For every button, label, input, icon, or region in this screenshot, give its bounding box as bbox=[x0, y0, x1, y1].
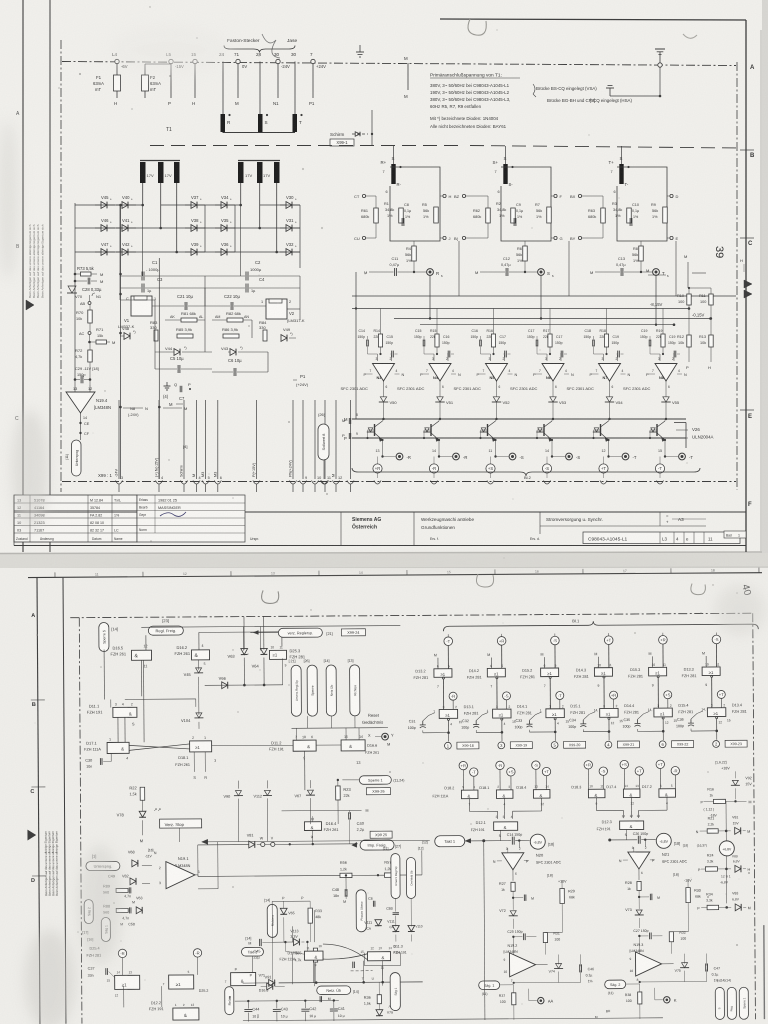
connector pin 5 M3 bbox=[201, 400, 210, 492]
phase block T bbox=[570, 146, 679, 296]
gate D18.1 (&) bbox=[479, 785, 513, 812]
secondary1 lead 2 bbox=[160, 183, 162, 228]
comparator ch6 input network bbox=[640, 309, 680, 362]
gate D16.4 bbox=[282, 809, 369, 845]
phase block R bbox=[354, 146, 459, 296]
left lower wires bbox=[142, 842, 218, 890]
gate D14.2 (row1) bbox=[467, 664, 506, 710]
resistor R37 bbox=[499, 985, 516, 1020]
output T drop bbox=[655, 276, 657, 326]
D12.3 input wires bbox=[597, 810, 668, 818]
output terminals ch2 bbox=[429, 446, 467, 484]
pair circles +S/+T bbox=[620, 760, 644, 789]
gate D12.2 bbox=[149, 1001, 199, 1020]
cap C26 150p bbox=[608, 832, 656, 847]
oval Drehfeld Ueb bbox=[406, 846, 424, 898]
connector pin 4 M bbox=[192, 400, 201, 492]
ruler tick 6 bbox=[583, 569, 627, 574]
page1 margin letter E bbox=[748, 414, 752, 420]
oval Säg. 2 bbox=[605, 980, 640, 995]
ruler tick 1 bbox=[143, 571, 187, 576]
D11.3 labels bbox=[393, 945, 406, 955]
capacitor C1 bbox=[121, 260, 206, 281]
gate D17.2 (&) bbox=[642, 784, 676, 811]
oval Sag1 bbox=[101, 917, 110, 941]
T1 primary winding S bbox=[258, 114, 268, 132]
driver transistor ch3 bbox=[479, 419, 496, 446]
feedback wire N20 bbox=[509, 932, 580, 984]
gate D13.3 (row1) bbox=[682, 662, 721, 708]
page2 frame dash-dot right bbox=[753, 613, 756, 1019]
oval Unterspng2 bbox=[86, 861, 120, 870]
resistor R85 bbox=[176, 327, 193, 338]
R33 resistor bbox=[308, 901, 322, 942]
center bottom verticals bbox=[270, 910, 315, 986]
driver transistor ch5 bbox=[592, 419, 609, 446]
aux earth [2] bbox=[590, 67, 661, 103]
R35 resistor bbox=[294, 948, 317, 983]
T1 secondary winding group2 bbox=[238, 161, 280, 184]
T1 primary feed 30 bbox=[291, 52, 297, 114]
N8 wire label bbox=[123, 406, 187, 417]
gate D25.4 bbox=[107, 958, 140, 998]
capacitor C43 bbox=[273, 1000, 288, 1022]
BL1 col6 input circle -S bbox=[712, 632, 721, 667]
capacitor C21 bbox=[152, 294, 205, 310]
bottom right oval 1 bbox=[715, 987, 724, 1019]
BL1 col3 input circle -S bbox=[551, 633, 560, 668]
gate D13.2 (row1) bbox=[413, 664, 452, 710]
capacitor C44 bbox=[244, 1000, 259, 1022]
diode V46 bbox=[95, 218, 115, 231]
diode V31 bbox=[280, 218, 300, 231]
page1 left margin line A bbox=[22, 0, 24, 552]
BL1 col4 M input bbox=[594, 652, 598, 668]
BL1 col6 mid circle +T bbox=[717, 690, 725, 707]
C45 cap bbox=[248, 939, 272, 960]
Primaeranschlussspannung note block bbox=[430, 73, 632, 130]
capacitor C41 bbox=[330, 999, 345, 1021]
labels D25.4 bbox=[86, 947, 101, 958]
op-amp N19.4 bbox=[66, 380, 111, 413]
diodes V63 V64 bbox=[227, 616, 267, 685]
left wire top bbox=[75, 203, 100, 380]
page1 left margin letter A bbox=[16, 111, 20, 117]
verz Regler oval top bbox=[250, 628, 365, 638]
oval Sperre 5 bbox=[99, 622, 118, 651]
gedaechtnis wires bbox=[307, 702, 309, 738]
M tap N21 bbox=[638, 894, 660, 901]
comparator N20 bbox=[493, 846, 562, 880]
V26 connect wires bbox=[676, 430, 746, 438]
zener V104 bbox=[181, 685, 204, 729]
zener V75 bbox=[675, 954, 690, 982]
resistor R24 bbox=[698, 853, 751, 872]
P1 +24V label bbox=[293, 374, 309, 387]
gate D13.4 (row2) bbox=[701, 703, 747, 740]
lower distribution verticals bbox=[256, 380, 293, 400]
resistor R82 bbox=[212, 311, 252, 322]
connector pin 11 11 bbox=[322, 400, 331, 492]
diode V73 bbox=[625, 908, 644, 928]
gate D14.3 (row1) bbox=[574, 663, 613, 709]
BL1 col1 input circle -T bbox=[444, 634, 453, 669]
page1 left margin letter B bbox=[16, 244, 20, 250]
sag verticals bbox=[88, 924, 105, 956]
label 1 12 bbox=[703, 801, 726, 831]
page1 left margin line B bbox=[49, 0, 51, 552]
page2 sheet number 40 rotated bbox=[739, 583, 753, 597]
comparator left feeds bbox=[355, 272, 357, 419]
gate D15.3 (row1) bbox=[628, 663, 667, 709]
secondary1 lead 1 bbox=[142, 183, 144, 205]
page2 left rail lines bbox=[88, 638, 146, 640]
page1 margin letter C bbox=[748, 241, 753, 247]
rail terminal 30 bbox=[274, 52, 290, 69]
T1 secondary winding group1 bbox=[140, 161, 180, 184]
page2 bus top horizontal bbox=[141, 626, 400, 628]
page2 left margin line A bbox=[37, 578, 40, 1024]
pair circles +R/-S bbox=[584, 760, 608, 789]
resistor R13 bbox=[699, 319, 713, 371]
cap C50 bbox=[120, 916, 135, 926]
resistor R29 bbox=[547, 873, 575, 932]
ff D17.1 bbox=[84, 737, 129, 760]
M H drops right bbox=[646, 254, 744, 273]
driver transistor ch1 bbox=[366, 419, 383, 446]
R88 resistor bbox=[103, 904, 142, 914]
gap between sheets bbox=[0, 553, 768, 569]
BL1 col4 mid circle +R bbox=[610, 691, 618, 708]
V1 block frame lines bbox=[142, 276, 269, 372]
diode V38 bbox=[185, 218, 205, 231]
ruler tick 3 bbox=[319, 570, 363, 575]
op-amp N6 (SFC 2301 ADC) bbox=[510, 357, 574, 397]
node CE bbox=[79, 422, 89, 426]
BL1 col2 input circle +R bbox=[497, 634, 506, 669]
ruler tick 0 bbox=[55, 572, 99, 577]
bottom BH labels bbox=[595, 1009, 611, 1019]
gate D12.3 bbox=[597, 820, 644, 840]
BL1 col5 M input bbox=[649, 652, 653, 668]
oval Säg. 1 bbox=[479, 981, 514, 996]
page 1 right paper edge bbox=[762, 0, 768, 553]
X99-1 box top bbox=[330, 139, 354, 146]
circle +6.8V a bbox=[719, 831, 738, 869]
v90 v112 v67 wires bbox=[238, 780, 338, 842]
diode V37 bbox=[185, 195, 205, 208]
page2 margin letter A bbox=[31, 613, 35, 619]
X99-25 box bbox=[370, 831, 392, 838]
M stub far left of text bbox=[404, 56, 408, 99]
gate D16.3 bbox=[225, 972, 269, 992]
M tap N20 bbox=[512, 894, 534, 901]
driver transistor ch6 bbox=[649, 419, 666, 446]
resistor R32 bbox=[669, 931, 686, 954]
resistor R21 bbox=[696, 815, 751, 834]
page1 margin tick 2 bbox=[740, 237, 754, 239]
page1 margin tick 1 bbox=[740, 149, 754, 151]
label T1 bbox=[166, 127, 172, 133]
T1 primary bottom link bbox=[223, 132, 296, 134]
capacitor C5 bbox=[155, 356, 212, 373]
rail -0.15V bbox=[394, 313, 712, 320]
connector pin 9 9 bbox=[300, 400, 308, 492]
ruler tick 7 bbox=[671, 568, 715, 573]
terminal AC bbox=[79, 332, 91, 337]
bottom right labels bbox=[717, 978, 731, 982]
bottom long horizontals bbox=[119, 399, 160, 401]
zener V54 bbox=[605, 397, 624, 420]
verz stop wires bbox=[143, 811, 180, 842]
oval Richten2 bbox=[264, 896, 304, 937]
BL1 col3 output circled 5 bbox=[551, 741, 585, 748]
gate D25.3 bbox=[269, 645, 305, 667]
H M short rail bbox=[648, 273, 706, 275]
label Faston-Stecker bbox=[227, 34, 297, 58]
BL1 col5 mid circle +S bbox=[664, 691, 672, 708]
ff pair right bbox=[323, 944, 401, 984]
gates mid row wires bbox=[129, 745, 341, 747]
page 1 paper (top scanned sheet) bbox=[0, 0, 768, 553]
Faston brace bbox=[224, 46, 295, 53]
rail stub N1 bbox=[273, 64, 279, 106]
zener V52 bbox=[492, 397, 511, 420]
diode V72 bbox=[499, 909, 518, 929]
imp freig oval bbox=[352, 840, 401, 850]
output terminals ch4 bbox=[542, 446, 580, 484]
output dot K bbox=[655, 988, 677, 1003]
page2 margin tick 1 bbox=[31, 700, 46, 876]
pair circles +T/-R bbox=[656, 760, 680, 789]
page2 margin letter C bbox=[30, 789, 34, 795]
BL1 col4 input circle +T bbox=[604, 633, 613, 668]
matrix to cap verticals bbox=[120, 205, 241, 300]
resistor R27 1k bbox=[499, 882, 515, 910]
driver transistor ch2 bbox=[423, 419, 440, 446]
label [1] bbox=[92, 854, 96, 859]
page1 right inner dash-dot frame bbox=[736, 62, 738, 490]
op-amp N5 (SFC 2301 ADC) bbox=[454, 357, 518, 397]
capacitor C28 label bbox=[82, 287, 102, 292]
phase block S bbox=[454, 146, 569, 296]
matrix row bus 2 bbox=[75, 227, 300, 230]
BL1 col1 output circled 1 bbox=[444, 742, 478, 749]
saeg vertical oval bottom bbox=[390, 973, 400, 1011]
circle -6.8V N21 bbox=[656, 833, 680, 848]
output dot AA bbox=[529, 989, 554, 1004]
diode V39 bbox=[185, 242, 205, 255]
capacitor C35 100p bbox=[622, 711, 663, 731]
X99-1 bottom label bbox=[98, 473, 112, 478]
page 2 paper (bottom scanned sheet) bbox=[0, 568, 768, 1024]
gate D15.2 (row1) bbox=[520, 663, 559, 709]
oval Sollwert 8 bbox=[318, 412, 329, 484]
output S drop bbox=[540, 276, 542, 320]
page2 top ruler line bbox=[28, 573, 762, 578]
takt row wire bbox=[202, 838, 430, 845]
capacitor C3 bbox=[121, 277, 206, 293]
resistor R10 bbox=[677, 288, 691, 309]
gate D16.2 bbox=[174, 631, 283, 667]
comparator N21 bbox=[619, 846, 688, 880]
driver transistor ch4 bbox=[536, 419, 553, 446]
R89 resistor bbox=[103, 884, 131, 894]
P labels bl bbox=[235, 968, 253, 978]
BL1 brace bbox=[443, 617, 758, 631]
vertical ovals row bbox=[291, 665, 360, 716]
sperre column wires bbox=[291, 716, 388, 741]
long vertical -24V wire bbox=[119, 205, 122, 479]
Schirm label bbox=[330, 132, 373, 137]
diode V30 bbox=[280, 195, 300, 208]
capacitor C36 100p bbox=[676, 711, 717, 731]
top supply rail (dash-dot) bbox=[62, 62, 736, 66]
oval Regl. Freig. bbox=[146, 618, 184, 650]
resistor R71 bbox=[88, 327, 115, 345]
feedback wire N21 bbox=[635, 932, 706, 984]
BL1 col6 M input bbox=[702, 652, 706, 668]
R10 R11 top feed bbox=[688, 262, 711, 289]
pair circles -S/+T bbox=[532, 761, 551, 790]
zener V74 bbox=[549, 954, 564, 982]
page1 margin letter B bbox=[750, 153, 755, 159]
connector dash-dot row bbox=[62, 481, 736, 483]
oval Phasen Ueberw bbox=[356, 890, 366, 932]
page2 binder curl 3 bbox=[691, 584, 706, 595]
sheet number 39 rotated bbox=[713, 246, 725, 258]
comparator top rail bbox=[352, 307, 690, 310]
oval Relais bbox=[225, 987, 234, 1015]
D12.1 input wires bbox=[470, 811, 542, 819]
V111 CA bbox=[364, 920, 381, 931]
lower section rail bbox=[352, 295, 736, 297]
page1 left black triangle marker bbox=[26, 300, 34, 310]
R57 resistor bbox=[384, 850, 422, 877]
diode V110 bbox=[408, 898, 423, 941]
op-amp N19.2 bbox=[503, 944, 547, 983]
label 12S1 bbox=[720, 869, 731, 904]
BL1 col6 output circled 2 bbox=[713, 740, 747, 747]
diode V44 bbox=[155, 346, 212, 355]
center vertical wires bbox=[272, 901, 311, 983]
diode V71 bbox=[243, 973, 275, 986]
opamp N19.4 output bbox=[81, 413, 88, 440]
matrix output verticals bbox=[120, 205, 300, 268]
diode V68 bbox=[120, 850, 138, 867]
right margin solid triangles bbox=[744, 280, 752, 298]
page1 top frame border bbox=[440, 19, 746, 552]
op-amp N7 (SFC 2301 ADC) bbox=[567, 357, 631, 397]
oval Takt 1 b bbox=[422, 835, 484, 846]
C48 cap bbox=[332, 874, 347, 904]
secondary2 lead 3 bbox=[276, 183, 278, 252]
page2 binder curl 2 bbox=[476, 574, 493, 587]
diode V40 bbox=[116, 195, 136, 208]
T1 primary feed 28 bbox=[256, 52, 262, 114]
page2 frame dash-dot top bbox=[70, 613, 752, 618]
diode V45 bbox=[95, 195, 115, 208]
R23 resistor bbox=[336, 779, 352, 808]
ruler tick 5 bbox=[495, 569, 539, 574]
label 4 bracket bbox=[183, 444, 187, 449]
secondary1 lead 3 bbox=[176, 183, 178, 252]
page2 margin letter B bbox=[32, 702, 36, 708]
comparator ch1 input network bbox=[358, 309, 398, 362]
comparator ch4 input network bbox=[527, 309, 567, 362]
gate D18.3 (&) bbox=[571, 784, 605, 811]
op-amp N19.3 bbox=[629, 943, 673, 982]
label 16.8V bbox=[715, 760, 735, 778]
gate D17.4 (&) bbox=[606, 784, 640, 811]
ruler tick 2 bbox=[231, 571, 275, 576]
BL1 col2 M input bbox=[487, 653, 491, 669]
oval Sag2 bbox=[82, 900, 93, 935]
rail stub P1 bbox=[309, 64, 315, 106]
rail -8.15V label bbox=[650, 302, 663, 307]
rail stub M bbox=[235, 64, 239, 106]
rail terminal L4 bbox=[112, 52, 128, 69]
zener V55 bbox=[661, 397, 680, 420]
hline cluster1 bbox=[125, 658, 283, 707]
page2 frame dash-dot left bbox=[79, 618, 82, 1024]
zener V70 bbox=[67, 281, 83, 299]
resistor R73 bbox=[74, 266, 104, 277]
capacitor C42 bbox=[301, 999, 316, 1021]
T1 primary winding R bbox=[221, 114, 232, 132]
comparator ch3 input network bbox=[471, 309, 511, 362]
connector pin 1 -24V bbox=[115, 400, 124, 492]
gate D16.6 bbox=[341, 735, 379, 765]
rail stub P bbox=[168, 64, 171, 106]
page2 vertical bus 3 bbox=[399, 626, 401, 658]
capacitor C29 bbox=[74, 366, 99, 385]
page1 binder notch 2 bbox=[683, 34, 697, 38]
cap 4.7n a bbox=[124, 894, 142, 904]
rail earth terminal bbox=[655, 49, 665, 67]
connector pin 10 10 bbox=[312, 400, 322, 492]
C37 cap bbox=[88, 966, 115, 977]
netz ueb box bbox=[279, 981, 423, 1003]
diode V36 bbox=[215, 242, 235, 255]
diode V35 bbox=[215, 218, 235, 231]
dashed separator line bbox=[150, 146, 740, 149]
secondary2 lead 2 bbox=[259, 183, 261, 228]
page1 margin letter F bbox=[748, 502, 752, 508]
C6x label bbox=[368, 897, 375, 907]
V7x LED2 bbox=[376, 1005, 394, 1016]
cap C14 150p bbox=[482, 833, 530, 848]
zener V51 bbox=[435, 397, 454, 420]
circled -R a bbox=[87, 937, 126, 957]
resistor R38 bbox=[625, 984, 642, 1019]
page2 left fine print column bbox=[44, 830, 59, 895]
gate D15.1 (row2) bbox=[540, 704, 586, 741]
sperre1 oval bbox=[342, 776, 404, 795]
ruler tick 4 bbox=[407, 570, 451, 575]
circle -6.8V N20 bbox=[530, 834, 554, 849]
terminal AB bbox=[80, 295, 91, 306]
diode V91 bbox=[261, 975, 285, 990]
page1 margin tick 3 bbox=[740, 409, 754, 411]
resistor R81 bbox=[165, 311, 205, 322]
gate D12.1 bbox=[471, 821, 518, 841]
rail terminal 7 bbox=[310, 52, 326, 69]
page2 left margin line B bbox=[63, 578, 66, 1024]
phasen bottom wires bbox=[364, 953, 400, 986]
connector pin 8 PN(+24V) bbox=[289, 400, 297, 492]
gate D18.4 (&) bbox=[516, 785, 550, 812]
